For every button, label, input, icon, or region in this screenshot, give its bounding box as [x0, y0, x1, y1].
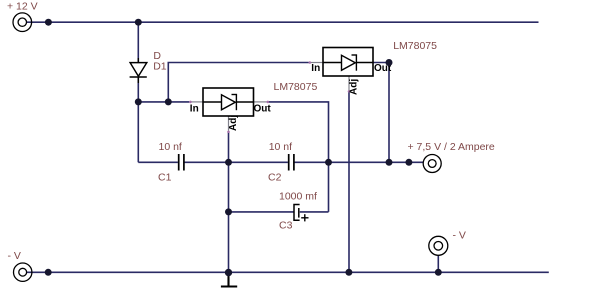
- wire C1 left segment: [138, 161, 178, 163]
- op-amp regulator U2 (lower LM78075) box: [203, 88, 254, 116]
- wire C1 to C2 segment: [185, 161, 288, 163]
- svg-text:- V: - V: [8, 250, 21, 262]
- wire lower Adj leg to ground: [228, 133, 230, 272]
- wire bottom rail: [27, 271, 549, 273]
- pin stub In (lower): [192, 101, 204, 103]
- node top diode junction: [135, 19, 142, 26]
- wire C3 right branch: [300, 211, 329, 213]
- node C rail / upper Out junction: [386, 159, 393, 166]
- terminal -V left: [14, 263, 32, 281]
- node bottom-left junction: [45, 269, 52, 276]
- node C rail / lower Adj junction: [225, 159, 232, 166]
- svg-text:Out: Out: [254, 104, 272, 115]
- wire diode bottom lead: [137, 77, 139, 102]
- wire C2 to output terminal: [295, 161, 424, 163]
- svg-text:In: In: [190, 104, 199, 115]
- svg-text:1000 mf: 1000 mf: [279, 190, 317, 202]
- svg-text:LM78075: LM78075: [274, 81, 318, 93]
- ground: [221, 274, 237, 287]
- capacitor C1: [179, 154, 184, 171]
- upper regulator internal diode symbol: [323, 55, 373, 71]
- svg-text:+ 12 V: + 12 V: [7, 1, 38, 13]
- svg-text:10 nf: 10 nf: [159, 141, 182, 153]
- pin stub In (upper): [311, 62, 323, 64]
- svg-text:- V: - V: [453, 230, 466, 242]
- node upper Out dot: [386, 59, 393, 66]
- pin stub Adj (lower): [228, 116, 230, 131]
- wire lower regulator Out down-leg: [269, 102, 329, 212]
- diode D1: [130, 58, 147, 83]
- wire upper Out down-leg: [373, 63, 389, 163]
- svg-text:C2: C2: [268, 172, 282, 184]
- wire top rail +12V: [27, 21, 539, 23]
- svg-text:LM78075: LM78075: [393, 40, 437, 52]
- terminal +7.5V output: [423, 155, 441, 173]
- wire C3 left branch: [229, 211, 294, 213]
- wire upper Adj leg to bottom rail: [348, 93, 350, 273]
- pin stub Adj (upper): [348, 76, 350, 90]
- pin stub Out (lower): [254, 101, 267, 103]
- node upper Adj bottom junction: [345, 269, 352, 276]
- svg-text:D1: D1: [153, 61, 167, 73]
- op-amp regulator U1 (upper LM78075) box: [323, 48, 373, 77]
- node ground junction: [225, 269, 232, 276]
- node C rail / lower Out junction: [325, 159, 332, 166]
- terminal +12V: [13, 13, 32, 32]
- node C3 branch junction: [225, 208, 232, 215]
- capacitor C2: [289, 154, 294, 171]
- node output pin dot: [405, 159, 412, 166]
- svg-text:Adj: Adj: [349, 79, 360, 95]
- svg-text:C3: C3: [279, 220, 293, 232]
- svg-text:C1: C1: [158, 172, 172, 184]
- wire diode junction to C1 rail: [137, 102, 139, 162]
- svg-text:In: In: [311, 63, 320, 74]
- node diode cathode junction: [135, 98, 142, 105]
- lower regulator internal diode symbol: [203, 95, 254, 111]
- capacitor C3 (electrolytic): [294, 205, 300, 221]
- node branch junction: [165, 98, 172, 105]
- node top-left junction: [45, 19, 52, 26]
- svg-text:Adj: Adj: [228, 115, 239, 131]
- node -V stub junction: [435, 269, 442, 276]
- node junction dots: [45, 19, 442, 276]
- wire diode top lead: [137, 22, 139, 62]
- svg-text:+ 7,5 V / 2 Ampere: + 7,5 V / 2 Ampere: [408, 141, 495, 153]
- wire -V terminal stub: [437, 255, 439, 272]
- label plus (C3 polarity): [301, 214, 308, 221]
- svg-text:10 nf: 10 nf: [269, 141, 292, 153]
- terminal -V right: [429, 236, 448, 255]
- wire riser to upper regulator In: [168, 63, 308, 102]
- wire node to lower regulator In: [138, 101, 189, 103]
